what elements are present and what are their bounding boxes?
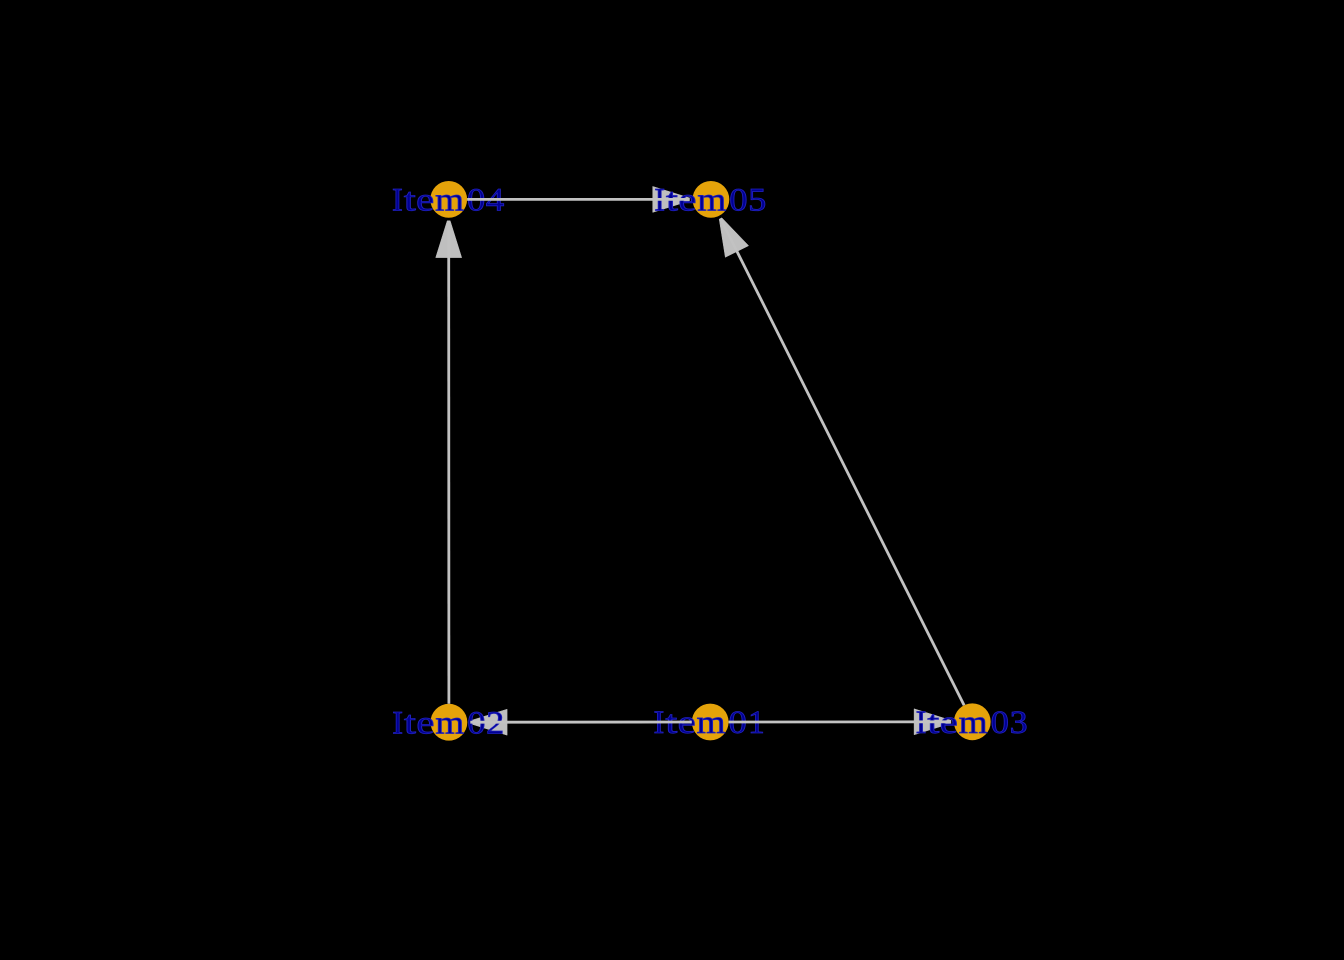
label Item02 <box>392 705 504 741</box>
svg-text:m: m <box>959 705 988 741</box>
svg-text:t: t <box>404 705 416 741</box>
label Item01 <box>654 705 765 741</box>
node Item04 circle <box>430 181 467 218</box>
svg-text:m: m <box>697 705 726 741</box>
wire of edge Item02->Item04 <box>447 221 450 704</box>
arrowhead of edge Item03->Item05 <box>719 218 748 257</box>
arrowhead of edge Item04->Item05 <box>653 186 690 212</box>
node Item02 circle <box>431 704 468 741</box>
arrowhead of edge Item01->Item03 <box>914 709 951 735</box>
svg-text:t: t <box>404 183 416 219</box>
svg-text:m: m <box>435 183 464 219</box>
arrowhead of edge Item02->Item04 <box>436 221 462 258</box>
wire of edge Item01->Item03 <box>729 720 951 723</box>
svg-text:3: 3 <box>1010 705 1028 741</box>
node Item01 circle <box>692 704 729 741</box>
label Item05 <box>654 183 766 219</box>
svg-text:m: m <box>435 705 464 741</box>
svg-text:I: I <box>392 705 403 741</box>
wire of edge Item03->Item05 <box>721 219 965 706</box>
svg-text:m: m <box>697 183 726 219</box>
svg-text:0: 0 <box>729 183 747 219</box>
svg-text:e: e <box>416 183 434 219</box>
svg-text:0: 0 <box>991 705 1009 741</box>
node Item05 circle <box>693 181 730 218</box>
label Item03 <box>916 705 1028 741</box>
svg-text:5: 5 <box>748 183 766 219</box>
arrowhead of edge Item01->Item02 <box>470 709 507 735</box>
svg-text:e: e <box>416 705 434 741</box>
wire of edge Item01->Item02 <box>470 721 692 724</box>
wire of edge Item04->Item05 <box>467 198 689 201</box>
svg-text:I: I <box>392 183 403 219</box>
label Item04 <box>392 183 504 219</box>
node Item03 circle <box>954 703 991 740</box>
